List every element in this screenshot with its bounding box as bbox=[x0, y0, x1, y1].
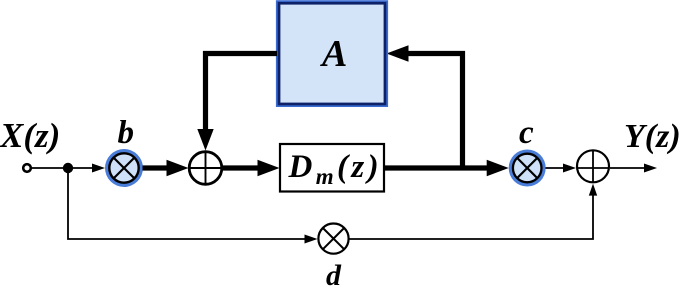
node: input branch junction bbox=[63, 163, 73, 173]
wire: summing junction S2 to output (with arrow) bbox=[610, 167, 645, 169]
multiplier b bbox=[105, 149, 143, 187]
svg-text:A: A bbox=[320, 33, 347, 75]
svg-text:Y(z): Y(z) bbox=[624, 118, 681, 155]
wire: multiplier b to summing junction 1 (thick, with big arrow) bbox=[143, 165, 170, 170]
wire: block Dm to multiplier c (thick, with big arrow) bbox=[384, 165, 490, 170]
input terminal (open circle) bbox=[23, 164, 31, 172]
wire: multiplier d to summing junction S2 (up, with arrow) bbox=[349, 195, 593, 239]
summing junction S2 bbox=[577, 150, 609, 182]
wire: node to multiplier b (with arrow) bbox=[68, 167, 94, 169]
summing junction S1 bbox=[189, 152, 222, 185]
wire: node down and along bottom to multiplier d (with arrow) bbox=[68, 168, 305, 239]
svg-text:X(z): X(z) bbox=[0, 116, 60, 155]
wire: summing junction S1 to block Dm (thick, with big arrow) bbox=[223, 165, 261, 170]
svg-text:b: b bbox=[118, 115, 135, 151]
svg-text:d: d bbox=[326, 259, 342, 287]
wire: multiplier c to summing junction S2 (with arrow) bbox=[546, 167, 565, 169]
wire: block A output to summing junction S1 (thick) bbox=[206, 54, 278, 131]
multiplier d bbox=[318, 224, 348, 254]
block A bbox=[276, 0, 388, 107]
wire: input terminal to node bbox=[31, 167, 66, 169]
block Dm(z) bbox=[280, 144, 384, 192]
svg-text:c: c bbox=[519, 115, 534, 151]
wire: branch up from Dm output to block A (thick) bbox=[407, 54, 463, 171]
multiplier c bbox=[509, 150, 546, 187]
